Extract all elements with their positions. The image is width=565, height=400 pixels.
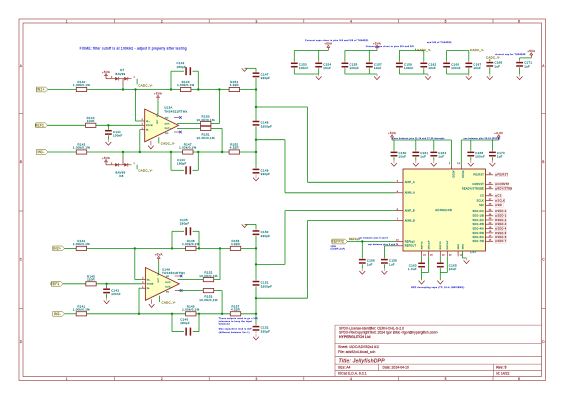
- svg-text:10uF: 10uF: [449, 267, 457, 271]
- svg-text:4.32R: 4.32R: [230, 83, 239, 87]
- svg-text:CONVST: CONVST: [472, 183, 484, 186]
- svg-text:AINN_A: AINN_A: [405, 192, 415, 195]
- svg-text:SDO-1/B: SDO-1/B: [472, 215, 484, 218]
- svg-text:OUT+: OUT+: [165, 287, 172, 289]
- svg-text:HYPERGLITCH Ltd: HYPERGLITCH Ltd: [339, 335, 371, 339]
- svg-text:D: D: [542, 340, 545, 344]
- svg-text:NC: NC: [165, 118, 169, 120]
- svg-text:4.32R: 4.32R: [231, 308, 240, 312]
- svg-text:5: 5: [445, 19, 447, 23]
- svg-text:BAV99: BAV99: [116, 72, 126, 76]
- svg-text:DECAP: DECAP: [427, 240, 430, 249]
- svg-text:4.32R: 4.32R: [231, 242, 240, 246]
- svg-text:2: 2: [161, 19, 163, 23]
- svg-text:Size: A4: Size: A4: [338, 365, 351, 369]
- svg-text:ADS92x4R: ADS92x4R: [435, 208, 453, 212]
- svg-text:10.0R/0.1%: 10.0R/0.1%: [199, 274, 218, 278]
- svg-text:1.00k/0.1%: 1.00k/0.1%: [177, 83, 194, 87]
- svg-text:1uF: 1uF: [420, 155, 426, 159]
- svg-text:RDY/STRB: RDY/STRB: [497, 188, 512, 191]
- svg-text:VOCM: VOCM: [147, 284, 154, 286]
- svg-text:IN+: IN+: [146, 121, 150, 123]
- svg-text:100nF: 100nF: [111, 292, 121, 296]
- svg-text:100nF: 100nF: [475, 155, 485, 159]
- svg-text:1.00k/0.1%: 1.00k/0.1%: [182, 308, 199, 312]
- svg-text:C: C: [20, 258, 23, 262]
- svg-text:Connect caps close to pins 3/4: Connect caps close to pins 3/4 and 5/6: [366, 45, 415, 48]
- svg-text:100nF: 100nF: [113, 134, 123, 138]
- svg-text:100nF: 100nF: [404, 66, 414, 70]
- svg-text:3300pF: 3300pF: [261, 284, 272, 288]
- svg-text:110R: 110R: [87, 119, 95, 123]
- svg-text:REFby2: REFby2: [405, 240, 416, 243]
- svg-text:L/S7: L/S7: [470, 251, 476, 254]
- svg-text:CADC_V-: CADC_V-: [162, 301, 177, 305]
- svg-text:NC: NC: [166, 291, 170, 293]
- svg-text:1uF: 1uF: [497, 155, 503, 159]
- svg-text:REF decoupling caps (TP, 10-4,: REF decoupling caps (TP, 10-4, BW0/BW1): [411, 287, 464, 289]
- svg-text:+3.3V: +3.3V: [494, 131, 503, 135]
- svg-text:closest cap for THS4545: closest cap for THS4545: [495, 53, 526, 56]
- svg-text:Connect caps close to pins 3/4: Connect caps close to pins 3/4 and 5/6 o…: [305, 39, 369, 42]
- svg-text:+5VA: +5VA: [154, 92, 162, 96]
- svg-text:GND: GND: [458, 243, 460, 249]
- svg-text:1.00k/0.1%: 1.00k/0.1%: [182, 242, 199, 246]
- svg-text:IN2-: IN2-: [54, 312, 61, 316]
- svg-text:10.0R/0.1%: 10.0R/0.1%: [196, 136, 215, 140]
- svg-text:REFOUT: REFOUT: [405, 245, 417, 248]
- svg-text:SDO-0/A: SDO-0/A: [472, 210, 484, 213]
- svg-text:1.0uF: 1.0uF: [408, 267, 417, 271]
- svg-text:CADC_V-: CADC_V-: [161, 142, 176, 146]
- svg-text:1.00k/0.1%: 1.00k/0.1%: [73, 308, 90, 312]
- svg-text:IN1-: IN1-: [37, 150, 44, 154]
- svg-text:SDO-5/B: SDO-5/B: [472, 232, 484, 235]
- svg-text:IN-: IN-: [147, 288, 150, 290]
- svg-text:1.00k/0.1%: 1.00k/0.1%: [179, 146, 196, 150]
- svg-text:REFIO: REFIO: [440, 241, 442, 249]
- svg-text:OUT-: OUT-: [165, 124, 171, 126]
- svg-text:Date: 2024-04-10: Date: 2024-04-10: [383, 365, 410, 369]
- svg-text:330pF: 330pF: [261, 234, 271, 238]
- svg-text:1.00k/0.1%: 1.00k/0.1%: [73, 146, 90, 150]
- svg-text:SPDX-FileCopyrightText: 2024 I: SPDX-FileCopyrightText: 2024 Igor Brkic …: [339, 331, 438, 335]
- svg-text:1: 1: [66, 377, 68, 381]
- svg-text:balanced: balanced: [219, 324, 231, 326]
- svg-text:10nF: 10nF: [374, 66, 382, 70]
- svg-text:PD/RST: PD/RST: [497, 174, 508, 177]
- svg-text:D: D: [20, 340, 23, 344]
- svg-text:OUT: OUT: [158, 277, 160, 282]
- svg-text:180pF: 180pF: [177, 162, 187, 166]
- svg-text:6: 6: [518, 19, 520, 23]
- svg-text:tolerance to keep the input: tolerance to keep the input: [219, 320, 252, 323]
- svg-text:+5VA: +5VA: [527, 49, 535, 53]
- svg-text:DECAP: DECAP: [446, 240, 449, 249]
- svg-text:IN+: IN+: [147, 279, 151, 281]
- svg-text:place between pins 11,14 and 1: place between pins 11,14 and 17,20 decou…: [392, 137, 445, 140]
- svg-text:6: 6: [518, 377, 520, 381]
- svg-text:THS4521RTWx: THS4521RTWx: [164, 110, 188, 114]
- svg-text:SDO-3: SDO-3: [497, 223, 506, 226]
- svg-text:110R: 110R: [87, 278, 95, 282]
- svg-text:4: 4: [350, 19, 352, 23]
- svg-text:1uF: 1uF: [367, 262, 373, 266]
- svg-text:100nF: 100nF: [451, 66, 461, 70]
- svg-text:180pF: 180pF: [177, 65, 187, 69]
- svg-text:SCLK: SCLK: [497, 200, 505, 203]
- svg-text:4.32R: 4.32R: [230, 146, 239, 150]
- svg-text:Rev: 5: Rev: 5: [496, 365, 506, 369]
- svg-text:SDO-2: SDO-2: [497, 219, 506, 222]
- svg-text:Max capacitive load is 4nF: Max capacitive load is 4nF: [219, 328, 252, 331]
- svg-text:AINP_B: AINP_B: [405, 210, 415, 213]
- svg-text:SDO-2/A: SDO-2/A: [472, 219, 484, 222]
- svg-text:SDO-7/B: SDO-7/B: [472, 240, 484, 243]
- svg-text:1uF: 1uF: [438, 155, 444, 159]
- svg-text:GND: GND: [462, 243, 464, 249]
- svg-text:B: B: [20, 160, 22, 164]
- svg-text:use between pins 15-16 (DVDD): use between pins 15-16 (DVDD): [464, 137, 501, 140]
- svg-text:OUT: OUT: [157, 119, 159, 124]
- svg-text:REFP/2: REFP/2: [331, 240, 344, 244]
- svg-text:1.00k/0.1%: 1.00k/0.1%: [73, 242, 90, 246]
- svg-text:180pF: 180pF: [180, 321, 190, 325]
- svg-text:SDO-4: SDO-4: [497, 228, 506, 231]
- svg-text:330pF: 330pF: [261, 76, 271, 80]
- svg-text:SDO-5: SDO-5: [497, 232, 506, 235]
- svg-text:Id: 14/22: Id: 14/22: [496, 372, 509, 376]
- svg-text:PD/RST: PD/RST: [474, 174, 485, 177]
- svg-text:10nF: 10nF: [473, 66, 481, 70]
- svg-text:100nF: 100nF: [299, 66, 309, 70]
- svg-text:+5VA: +5VA: [102, 156, 110, 160]
- svg-text:1uF: 1uF: [494, 64, 500, 68]
- svg-text:REF1: REF1: [50, 282, 59, 286]
- svg-text:(COMP+1nF): (COMP+1nF): [331, 248, 346, 250]
- svg-text:B: B: [542, 160, 544, 164]
- svg-text:SCLK: SCLK: [477, 200, 484, 203]
- svg-text:REF1: REF1: [35, 124, 44, 128]
- svg-text:Sheet: /ADC/ADS92x4 #1/: Sheet: /ADC/ADS92x4 #1/: [338, 345, 379, 349]
- svg-text:CS: CS: [497, 195, 501, 198]
- svg-text:SDO-1: SDO-1: [497, 215, 506, 218]
- svg-text:CADC_V-: CADC_V-: [417, 48, 432, 52]
- svg-text:READY/STROBE: READY/STROBE: [462, 188, 484, 191]
- svg-text:File: ads92x4.kicad_sch: File: ads92x4.kicad_sch: [338, 350, 375, 354]
- svg-text:3: 3: [255, 377, 257, 381]
- svg-text:100nF: 100nF: [350, 66, 360, 70]
- svg-text:OUT-: OUT-: [165, 282, 171, 284]
- svg-text:THS4521RTWx: THS4521RTWx: [162, 271, 186, 275]
- svg-text:5: 5: [445, 377, 447, 381]
- svg-text:KiCad E.D.A. 8.0.1: KiCad E.D.A. 8.0.1: [338, 372, 367, 376]
- svg-text:+5VA: +5VA: [155, 253, 163, 257]
- svg-text:AINN_B: AINN_B: [405, 219, 415, 222]
- svg-text:1.00k/0.1%: 1.00k/0.1%: [73, 83, 90, 87]
- svg-text:C: C: [542, 258, 545, 262]
- svg-text:AVDD: AVDD: [451, 171, 454, 178]
- svg-text:SDO-3/B: SDO-3/B: [472, 223, 484, 226]
- svg-text:OUT+: OUT+: [165, 128, 172, 130]
- svg-text:330pF: 330pF: [261, 172, 271, 176]
- svg-text:VOCM: VOCM: [146, 125, 153, 127]
- svg-text:+5VA: +5VA: [388, 131, 396, 135]
- svg-text:10nF: 10nF: [428, 66, 436, 70]
- svg-text:4: 4: [350, 377, 352, 381]
- svg-text:SDO-4/A: SDO-4/A: [472, 228, 484, 231]
- svg-text:10uF: 10uF: [399, 155, 407, 159]
- svg-text:3300pF: 3300pF: [261, 124, 272, 128]
- svg-text:NC: NC: [165, 133, 169, 135]
- svg-text:and 5/6 of THS4522: and 5/6 of THS4522: [427, 42, 452, 44]
- svg-text:DVDD: DVDD: [461, 171, 463, 179]
- svg-text:SDO-6/A: SDO-6/A: [472, 236, 484, 239]
- svg-text:IN-: IN-: [146, 130, 149, 132]
- svg-text:1uF: 1uF: [524, 64, 530, 68]
- svg-text:10.0R/0.1%: 10.0R/0.1%: [196, 118, 215, 122]
- svg-text:SDO-6: SDO-6: [497, 236, 506, 239]
- svg-text:SDI: SDI: [479, 204, 484, 207]
- svg-text:1: 1: [66, 19, 68, 23]
- svg-text:2: 2: [161, 377, 163, 381]
- svg-text:CADC_V-: CADC_V-: [470, 48, 485, 52]
- svg-text:10.0R/0.1%: 10.0R/0.1%: [199, 298, 218, 302]
- svg-text:180pF: 180pF: [180, 221, 190, 225]
- svg-text:AINP_A: AINP_A: [405, 181, 415, 184]
- svg-text:NC: NC: [166, 276, 170, 278]
- svg-text:FIXME: filter cutoff is at 100: FIXME: filter cutoff is at 100kHz - adju…: [80, 46, 187, 50]
- svg-text:D8: D8: [119, 174, 123, 178]
- svg-text:Title: JellyfishDPP: Title: JellyfishDPP: [339, 358, 386, 364]
- svg-text:10nF: 10nF: [323, 66, 331, 70]
- svg-text:+5VA: +5VA: [102, 70, 110, 74]
- svg-text:CS: CS: [480, 195, 484, 198]
- svg-text:(different between Vs+/-): (different between Vs+/-): [219, 331, 250, 334]
- svg-text:These outputs need to go +/-5R: These outputs need to go +/-5R: [219, 317, 258, 320]
- svg-text:CONVST: CONVST: [497, 183, 509, 186]
- svg-text:330pF: 330pF: [261, 329, 271, 333]
- svg-text:use between pins 5 and 6: use between pins 5 and 6: [359, 236, 389, 239]
- svg-text:1uF: 1uF: [389, 262, 395, 266]
- svg-text:3: 3: [255, 19, 257, 23]
- svg-text:CADC_V-: CADC_V-: [138, 168, 153, 172]
- svg-text:SDO-0: SDO-0: [497, 210, 506, 213]
- svg-text:CADC_V-: CADC_V-: [138, 83, 153, 87]
- svg-text:REFIO: REFIO: [422, 241, 424, 249]
- svg-text:IN2+: IN2+: [53, 247, 61, 251]
- svg-text:IN1+: IN1+: [37, 88, 45, 92]
- svg-text:SDO-7: SDO-7: [497, 240, 506, 243]
- svg-text:SDI: SDI: [497, 204, 502, 207]
